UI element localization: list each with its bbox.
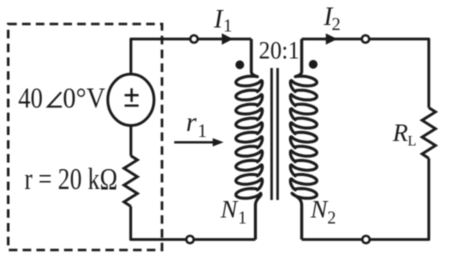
svg-text:2: 2: [327, 207, 336, 227]
wire: source bottom to resistor r: [129, 125, 132, 156]
svg-text:20:1: 20:1: [259, 37, 300, 64]
resistor r zigzag: [124, 156, 137, 207]
wire: top-right horizontal to RL: [302, 39, 429, 108]
primary winding N1: [236, 39, 262, 240]
plus-minus inside source: [125, 88, 139, 105]
node terminal: bottom-right open circle: [362, 236, 369, 243]
node terminal: bottom-left open circle: [186, 236, 193, 243]
wire: source top / top-left horizontal: [131, 39, 251, 75]
svg-text:N: N: [310, 197, 329, 224]
transformer core: [272, 68, 278, 200]
wire: r bottom to left coil bottom: [131, 206, 256, 239]
svg-text:2: 2: [332, 14, 341, 34]
arrowhead I1: [222, 33, 233, 45]
wire: RL bottom to right coil bottom: [302, 158, 429, 239]
svg-text:40: 40: [18, 84, 43, 115]
svg-text:1: 1: [238, 207, 247, 227]
svg-text:L: L: [408, 133, 417, 149]
svg-text:N: N: [220, 197, 239, 224]
node terminal: top-right open circle: [362, 35, 369, 42]
voltage source V1 (ellipse): [108, 74, 154, 125]
polarity dot left: [235, 60, 244, 69]
resistor RL zigzag: [422, 108, 435, 159]
angle symbol: [48, 92, 62, 106]
svg-text:R: R: [392, 120, 408, 147]
polarity dot right: [309, 60, 318, 69]
svg-text:0°V: 0°V: [63, 84, 106, 115]
node terminal: top-left open circle: [190, 35, 197, 42]
arrowhead I2: [326, 33, 338, 44]
secondary winding N2: [290, 39, 316, 240]
svg-text:1: 1: [223, 16, 232, 36]
svg-text:1: 1: [198, 122, 207, 142]
svg-text:r = 20 kΩ: r = 20 kΩ: [25, 161, 118, 196]
svg-text:r: r: [186, 107, 197, 137]
reflected-impedance arrow r1: [174, 141, 214, 143]
dashed Thevenin-source box: [8, 24, 162, 250]
